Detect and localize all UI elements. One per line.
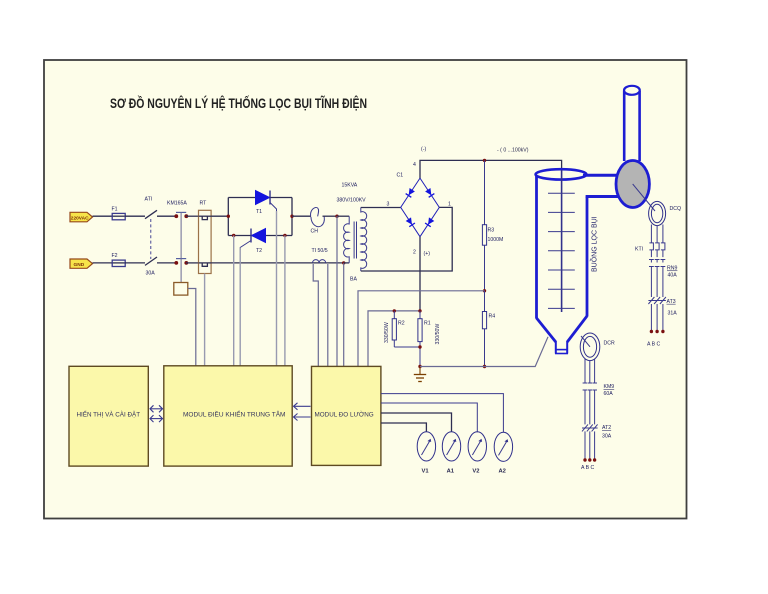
svg-text:4: 4: [413, 162, 416, 168]
thyristor T1: [256, 191, 277, 215]
svg-text:HIỂN THỊ VÀ CÀI ĐẶT: HIỂN THỊ VÀ CÀI ĐẶT: [77, 410, 141, 419]
svg-text:CH: CH: [311, 228, 319, 234]
junction dot: [418, 345, 421, 348]
chimney: [624, 86, 640, 161]
junction dot: [290, 215, 293, 218]
module box MODUL DO LUONG: [312, 366, 381, 465]
fuse F1: [111, 207, 125, 220]
current transformer TI 50/5: [312, 248, 328, 263]
junction dot: [342, 261, 345, 264]
arrow measure-control upper: [294, 403, 311, 410]
svg-text:GND: GND: [74, 262, 85, 268]
wire ATI pole2 to KM165A pole2: [157, 262, 176, 264]
svg-text:DCQ: DCQ: [670, 206, 682, 212]
electrode in vessel: [548, 170, 575, 312]
fan: [616, 161, 655, 212]
junction dot: [418, 365, 421, 368]
wire coil to control module: [188, 289, 196, 367]
svg-text:A B C: A B C: [581, 465, 595, 471]
wire block to CH: [292, 215, 311, 217]
wire bridge minus output: [420, 160, 562, 178]
contactor link KM165A: [180, 212, 182, 282]
svg-text:F1: F1: [112, 207, 118, 213]
svg-text:F2: F2: [112, 253, 118, 259]
wire shunt node to measure module: [368, 311, 420, 366]
wire CT secondary left to measure module: [313, 264, 318, 366]
junction dot: [283, 234, 286, 237]
node thyristor block right riser: [291, 198, 293, 236]
svg-text:2: 2: [413, 250, 416, 256]
svg-text:A2: A2: [499, 469, 506, 475]
wire KM165A pole2 to RT: [186, 262, 199, 264]
junction dot: [335, 215, 338, 218]
duct fan lower-left: [586, 195, 621, 198]
junction dot: [393, 309, 396, 312]
arrow display-control lower: [150, 415, 163, 422]
junction dot: [174, 261, 178, 265]
wire measure to meter A2: [381, 394, 504, 433]
wire CT secondary right to measure module: [327, 264, 329, 366]
module box HIEN THI VA CAI DAT: [69, 366, 148, 466]
contactor KM165A pole 2: [176, 258, 186, 260]
svg-text:KM165A: KM165A: [167, 201, 187, 207]
coil KM165A: [174, 283, 188, 296]
svg-text:AT3: AT3: [667, 299, 676, 305]
vessel BUONG LOC BUI body: [537, 176, 588, 354]
diode D bottom-left: [406, 217, 415, 226]
junction dot: [174, 214, 178, 218]
breaker AT3: [648, 297, 677, 330]
diode D top-left: [406, 188, 415, 197]
wire 220VAC to F1: [93, 215, 112, 217]
svg-text:RN9: RN9: [667, 266, 677, 272]
meter V2: [468, 432, 486, 475]
wire T1 ref to control module: [284, 236, 286, 367]
transformer BA core: [354, 222, 356, 259]
junction dot: [227, 215, 230, 218]
ground: [414, 367, 426, 382]
contactor KM9 (DCR): [583, 383, 615, 424]
wire thyristor bottom branch: [228, 235, 292, 237]
meter A2: [494, 432, 512, 474]
wire GND junction to transformer primary bottom: [344, 262, 350, 264]
relay RT (thermal): [199, 201, 212, 274]
wire thyristor top branch: [228, 197, 292, 199]
svg-text:DCR: DCR: [604, 340, 615, 346]
arrow measure-control lower: [294, 414, 311, 421]
junction dot: [483, 159, 486, 162]
wire measure to meter V2: [381, 403, 477, 432]
wire junction to measure module: [336, 216, 338, 366]
wire secondary top to bridge: [361, 207, 401, 209]
junction dot: [184, 214, 188, 218]
resistor R2: [384, 311, 420, 347]
svg-text:1: 1: [448, 201, 451, 207]
breaker AT2: [582, 424, 612, 458]
fuse F2: [111, 253, 125, 266]
module box MODUL DIEU KHIEN TRUNG TAM: [164, 366, 292, 466]
contactor KM9 (DCQ): [649, 260, 677, 298]
wire HV sense node to measure module: [358, 291, 485, 366]
svg-text:380V/100KV: 380V/100KV: [337, 197, 367, 203]
wire RT to thyristor block: [211, 215, 228, 217]
node GND input flag: [70, 259, 93, 268]
svg-text:R1: R1: [424, 320, 431, 326]
wire bridge right loop: [361, 207, 452, 271]
wire RT to CT line: [211, 262, 344, 264]
motor DCR: [580, 333, 615, 361]
svg-text:330/50W: 330/50W: [384, 322, 390, 343]
motor DCQ: [649, 201, 681, 225]
svg-text:(-): (-): [421, 147, 426, 153]
rectifier bridge C1: [397, 173, 440, 237]
svg-text:T2: T2: [256, 248, 262, 254]
terminals A B C (DCQ): [647, 330, 665, 348]
duct vessel to fan top: [583, 174, 620, 177]
svg-text:A1: A1: [447, 469, 455, 475]
svg-text:3: 3: [387, 201, 390, 207]
node thyristor block left riser: [227, 198, 229, 236]
junction dot: [184, 261, 188, 265]
svg-text:V1: V1: [422, 469, 430, 475]
svg-text:40A: 40A: [668, 273, 678, 279]
breaker ATI pole 2: [145, 257, 157, 276]
svg-text:RT: RT: [200, 201, 208, 207]
svg-text:60A: 60A: [604, 391, 614, 397]
svg-text:KTI: KTI: [635, 247, 643, 253]
diode D bottom-right: [425, 217, 434, 226]
vessel top ellipse: [536, 169, 587, 179]
svg-text:1000M: 1000M: [488, 237, 504, 243]
svg-text:15KVA: 15KVA: [342, 183, 358, 189]
transformer BA secondary winding: [361, 208, 367, 272]
svg-text:BA: BA: [350, 277, 357, 283]
wire CH junction to transformer primary top: [337, 215, 349, 217]
wire F1 to ATI: [125, 215, 145, 217]
resistor R3: [482, 160, 503, 290]
junction dot: [418, 309, 421, 312]
wire RT aux to control module: [204, 274, 206, 367]
wire GND F2 segment: [93, 262, 112, 264]
svg-text:MODUL ĐO LƯỜNG: MODUL ĐO LƯỜNG: [315, 410, 374, 419]
svg-text:220VAC: 220VAC: [71, 215, 89, 221]
svg-text:TI 50/5: TI 50/5: [312, 248, 328, 254]
wire measure to meter A1: [381, 413, 452, 432]
inductor CH: [311, 207, 338, 234]
resistor R4: [482, 291, 495, 367]
wire KM165A to RT: [186, 215, 199, 217]
svg-text:(+): (+): [424, 251, 431, 257]
terminals A B C (DCR): [581, 458, 596, 471]
overload KTI: [635, 243, 665, 257]
node 220VAC input flag: [70, 212, 93, 222]
breaker ATI pole 1: [145, 196, 158, 218]
diode D top-right: [425, 188, 434, 197]
junction dot: [483, 289, 486, 292]
svg-text:A B C: A B C: [647, 342, 661, 348]
svg-text:T1: T1: [256, 209, 262, 215]
svg-text:330/50W: 330/50W: [435, 324, 441, 345]
svg-text:ATI: ATI: [145, 196, 153, 202]
wire ground bus to vessel: [420, 337, 548, 367]
svg-text:- ( 0 ...100kV): - ( 0 ...100kV): [497, 148, 529, 154]
wire T2 ref to control module: [233, 236, 235, 367]
svg-text:30A: 30A: [146, 270, 156, 276]
svg-text:30A: 30A: [602, 434, 612, 440]
svg-text:V2: V2: [472, 469, 479, 475]
svg-text:31A: 31A: [668, 310, 678, 316]
meter A1: [442, 432, 460, 475]
wire ATI to KM165A: [157, 215, 176, 217]
svg-text:KM9: KM9: [604, 384, 615, 390]
wire bridge plus output: [419, 237, 421, 311]
wires DCR 3-phase: [585, 359, 595, 384]
transformer BA primary winding: [344, 216, 350, 263]
meter V1: [417, 432, 435, 475]
svg-text:R2: R2: [398, 320, 405, 326]
wire T2 gate to control module: [239, 248, 241, 367]
resistor R1: [418, 311, 441, 367]
svg-text:R3: R3: [488, 228, 495, 234]
svg-text:C1: C1: [397, 173, 404, 179]
svg-text:R4: R4: [489, 313, 496, 319]
breaker ATI link (dashed): [150, 219, 152, 259]
wire T1 gate to control module: [276, 211, 278, 366]
wire measure to meter V1: [381, 423, 427, 432]
wire junction to measure module: [343, 263, 345, 366]
contactor KM165A pole 1: [167, 201, 187, 213]
thyristor T2: [240, 229, 265, 255]
arrow display-control upper: [150, 405, 163, 412]
wire F2 to ATI pole2: [125, 262, 145, 264]
wires DCQ 3-phase: [651, 225, 663, 243]
svg-text:SƠ ĐỒ NGUYÊN LÝ HỆ THỐNG LỌC B: SƠ ĐỒ NGUYÊN LÝ HỆ THỐNG LỌC BỤI TĨNH ĐI…: [110, 96, 367, 111]
junction dot: [232, 234, 235, 237]
svg-text:AT2: AT2: [602, 425, 611, 431]
junction dot: [483, 365, 486, 368]
